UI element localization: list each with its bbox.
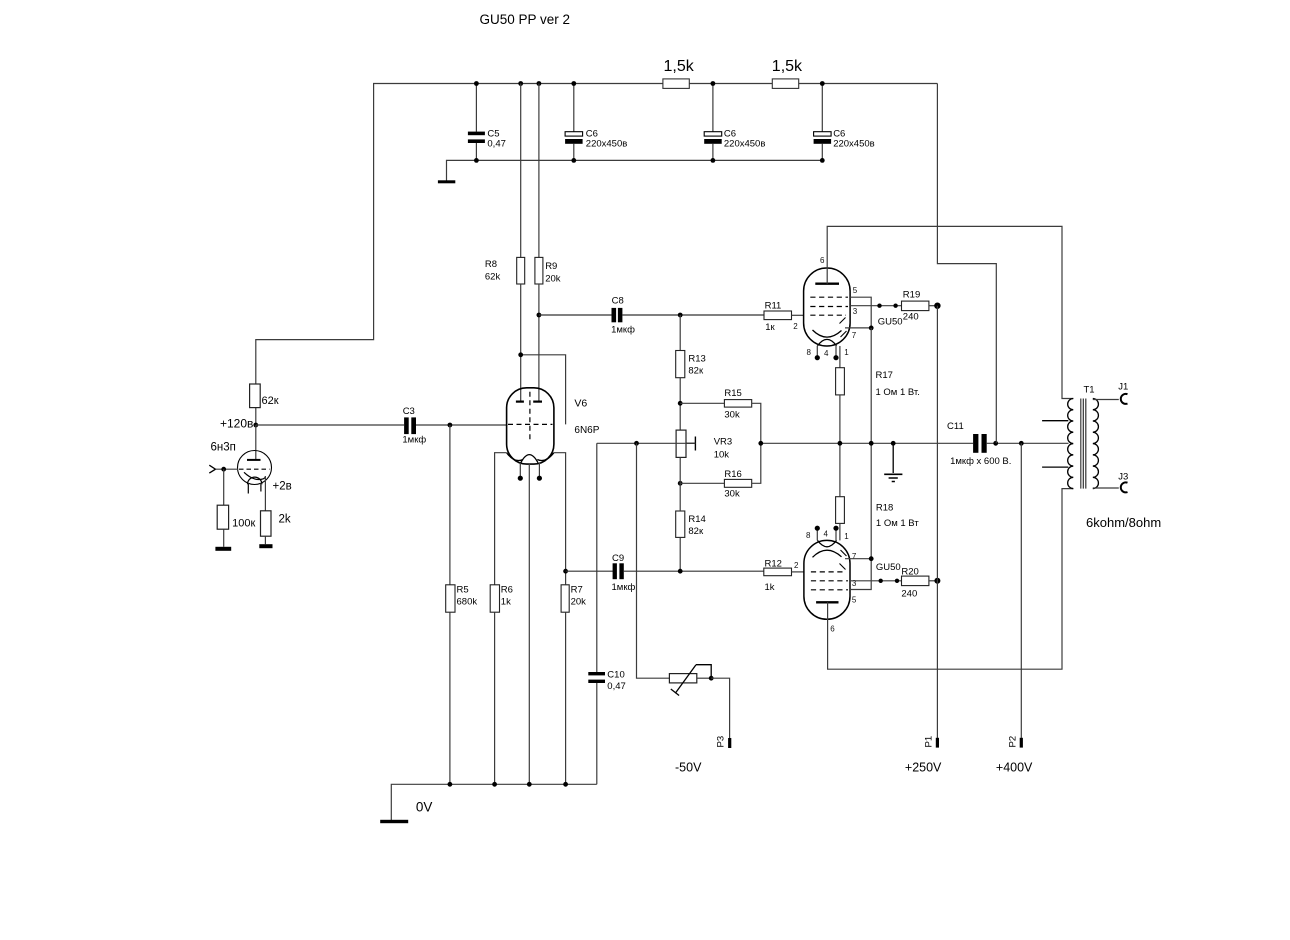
svg-text:R20: R20 <box>901 567 918 578</box>
svg-text:30k: 30k <box>724 410 740 421</box>
svg-text:+250V: +250V <box>905 761 942 775</box>
terminal P1 <box>936 738 939 748</box>
svg-text:-50V: -50V <box>675 761 702 775</box>
capacitor C9 coupling bottom <box>563 569 568 574</box>
capacitor C6 (third) <box>821 84 823 132</box>
wire C9 to R12 <box>624 570 764 572</box>
svg-text:R17: R17 <box>876 370 893 381</box>
ground symbol center <box>892 443 894 473</box>
svg-text:20k: 20k <box>545 274 561 285</box>
svg-text:C10: C10 <box>607 670 624 681</box>
svg-text:62k: 62k <box>485 272 501 283</box>
node R13/R15/VR3 <box>678 401 683 406</box>
node input grid <box>221 467 226 472</box>
wire +250V feed <box>936 306 938 738</box>
wire bias node down to thermistor <box>637 443 670 678</box>
wire cathode bracket right to R7 <box>554 453 566 572</box>
svg-text:8: 8 <box>807 348 812 357</box>
svg-text:GU50 PP ver 2: GU50 PP ver 2 <box>480 12 571 27</box>
resistor R6 1k <box>490 585 499 612</box>
svg-text:6kohm/8ohm: 6kohm/8ohm <box>1086 515 1161 530</box>
node C3/R5 <box>448 423 453 428</box>
svg-text:220x450в: 220x450в <box>833 139 875 150</box>
capacitor C11 1мкф 600В <box>973 434 978 453</box>
svg-text:1к: 1к <box>765 322 775 333</box>
capacitor C6 (second) <box>712 84 714 132</box>
resistor R18 1 Ом <box>836 497 845 524</box>
node R14/R16/VR3 <box>678 481 683 486</box>
svg-text:20k: 20k <box>571 597 587 608</box>
wire +120в node to C3 <box>256 424 404 426</box>
wire input to grid <box>216 468 239 470</box>
svg-text:R7: R7 <box>571 585 583 596</box>
transformer T1 primary winding <box>1068 399 1074 489</box>
wire C3 to V6 grid <box>416 424 508 426</box>
svg-text:VR3: VR3 <box>714 437 732 448</box>
svg-text:1: 1 <box>844 532 849 541</box>
svg-text:C8: C8 <box>612 296 624 307</box>
node dots on ground bus <box>474 158 825 163</box>
wire suppressor line down to ground line <box>870 328 872 559</box>
resistor R12 1k grid stopper bottom <box>764 568 792 576</box>
transformer tap stub upper <box>1042 420 1068 422</box>
svg-text:240: 240 <box>903 312 919 323</box>
wire secondary to J3 <box>1093 487 1119 489</box>
resistor R5 680k <box>449 425 451 585</box>
svg-text:T1: T1 <box>1084 385 1095 396</box>
resistor R15 30k <box>680 402 724 404</box>
svg-text:0V: 0V <box>416 800 433 815</box>
resistor R20 240 screen stopper <box>902 576 929 586</box>
svg-text:3: 3 <box>853 307 858 316</box>
resistor R19 240 screen stopper <box>902 301 929 311</box>
svg-text:5: 5 <box>852 596 857 605</box>
svg-text:J3: J3 <box>1118 472 1128 483</box>
svg-text:7: 7 <box>852 331 857 340</box>
tube V6 6N6P driver <box>507 388 554 464</box>
resistor R8 62k plate load V6a <box>520 84 522 258</box>
svg-text:1 Ом 1 Вт.: 1 Ом 1 Вт. <box>876 387 920 398</box>
wire pin3 to R19 <box>850 305 901 307</box>
tube 6н3п input triode <box>238 451 272 494</box>
terminal P3 <box>728 738 731 748</box>
terminal P2 <box>1020 738 1023 748</box>
wire secondary to J1 <box>1093 399 1119 401</box>
wire plate V6b to C8 <box>539 314 612 316</box>
node C9/R14 <box>678 569 683 574</box>
capacitor C5 <box>475 84 477 132</box>
svg-text:1k: 1k <box>501 597 511 608</box>
svg-text:R5: R5 <box>457 585 469 596</box>
wire bottom anode to transformer <box>828 489 1074 670</box>
wire screen bracket pins 7-5 bottom tube <box>845 559 871 590</box>
wire ground bus top <box>447 160 823 181</box>
svg-text:1: 1 <box>844 348 849 357</box>
svg-text:C9: C9 <box>612 553 624 564</box>
capacitor C10 bias filter <box>596 443 598 672</box>
wire C8 to R11 <box>622 314 764 316</box>
wire R18 to pin1 bottom tube <box>839 523 841 540</box>
svg-text:R13: R13 <box>688 354 705 365</box>
svg-text:7: 7 <box>852 552 857 561</box>
svg-text:R12: R12 <box>765 559 782 570</box>
svg-text:C11: C11 <box>947 421 964 432</box>
svg-text:2: 2 <box>793 322 798 331</box>
svg-text:C3: C3 <box>403 406 415 417</box>
svg-text:R11: R11 <box>765 301 782 312</box>
svg-text:P3: P3 <box>716 736 727 748</box>
svg-text:6N6P: 6N6P <box>574 425 599 436</box>
resistor R16 30k <box>680 482 724 484</box>
svg-text:2: 2 <box>794 561 799 570</box>
wire cathode bracket left to R6 <box>495 453 507 585</box>
svg-text:R16: R16 <box>724 469 741 480</box>
capacitor C6 (first) <box>573 84 575 132</box>
resistor R14 82к <box>676 511 685 537</box>
svg-text:220x450в: 220x450в <box>586 139 628 150</box>
resistor R17 1 Ом <box>836 368 845 395</box>
svg-text:1мкф x 600 В.: 1мкф x 600 В. <box>950 456 1011 467</box>
input terminal chevron <box>209 465 215 473</box>
jack J3 <box>1121 482 1128 492</box>
wire screen rail from B+ to C11 node <box>937 84 996 444</box>
heater pins GU50 top <box>816 346 818 357</box>
thermistor bias network <box>669 674 696 683</box>
capacitor C3 coupling <box>404 417 409 434</box>
svg-text:5: 5 <box>853 286 858 295</box>
capacitor C8 coupling top <box>612 308 617 322</box>
svg-text:220x450в: 220x450в <box>724 139 766 150</box>
wire cathode of 6н3п to 2k <box>264 476 266 511</box>
svg-text:1мкф: 1мкф <box>611 325 635 336</box>
wire top B+ rail <box>256 84 938 385</box>
svg-text:R14: R14 <box>688 514 705 525</box>
resistor 62к plate load of input stage <box>255 408 257 425</box>
node +120в <box>253 423 258 428</box>
svg-text:R6: R6 <box>501 585 513 596</box>
svg-text:30k: 30k <box>724 489 740 500</box>
svg-text:62к: 62к <box>262 395 279 407</box>
jack J1 <box>1121 394 1128 404</box>
wire C11 to transformer center tap <box>987 442 1069 444</box>
svg-text:4: 4 <box>824 530 829 539</box>
svg-text:240: 240 <box>901 589 917 600</box>
heater pins of V6 <box>519 463 521 477</box>
wire plate V6a to grid V6b bracket <box>521 355 566 425</box>
svg-text:R8: R8 <box>485 259 497 270</box>
svg-text:82к: 82к <box>688 366 704 377</box>
svg-text:6: 6 <box>820 256 825 265</box>
svg-text:0,47: 0,47 <box>607 681 626 692</box>
svg-text:2k: 2k <box>279 514 291 526</box>
resistor R9 20k plate load V6b <box>538 84 540 258</box>
svg-text:1мкф: 1мкф <box>612 582 636 593</box>
svg-text:6н3п: 6н3п <box>211 442 236 454</box>
svg-text:1k: 1k <box>765 582 775 593</box>
wire V6 center cathode to 0V bus <box>528 464 530 785</box>
svg-text:J1: J1 <box>1118 382 1128 393</box>
svg-text:P2: P2 <box>1007 736 1018 748</box>
svg-text:1 Ом 1 Вт: 1 Ом 1 Вт <box>876 518 919 529</box>
svg-text:P1: P1 <box>924 736 935 748</box>
heater pins GU50 bottom <box>816 530 818 541</box>
resistor R11 1к grid stopper top <box>764 311 792 320</box>
ground line center <box>761 442 973 444</box>
svg-text:+400V: +400V <box>996 761 1033 775</box>
svg-text:+120в: +120в <box>220 417 253 431</box>
svg-text:680k: 680k <box>457 597 478 608</box>
svg-text:1,5k: 1,5k <box>772 58 803 75</box>
svg-text:GU50: GU50 <box>878 317 903 328</box>
svg-text:4: 4 <box>824 349 829 358</box>
svg-text:R9: R9 <box>545 261 557 272</box>
wire thermistor to P3 <box>711 678 729 738</box>
resistor R7 20k <box>561 585 569 612</box>
svg-text:10k: 10k <box>714 450 730 461</box>
wire +400V feed <box>1020 443 1022 738</box>
svg-text:100к: 100к <box>232 518 255 530</box>
resistor R13 82к <box>679 315 681 351</box>
svg-text:R15: R15 <box>724 388 741 399</box>
tube GU50 top <box>804 268 851 346</box>
resistor 100к grid leak <box>223 469 225 505</box>
transformer tap stub lower <box>1042 466 1068 468</box>
wire screen bracket pins 5-7 top tube <box>845 297 871 328</box>
node plate V6b / C8 <box>537 313 542 318</box>
resistor 1,5k (first) <box>663 79 689 89</box>
wire anode lead of 6н3п <box>255 425 257 460</box>
svg-text:+2в: +2в <box>273 481 292 493</box>
node C8/R13 <box>678 313 683 318</box>
svg-text:0,47: 0,47 <box>487 139 506 150</box>
ground 0V <box>380 820 408 823</box>
svg-text:R18: R18 <box>876 503 893 514</box>
svg-text:V6: V6 <box>574 398 587 410</box>
tube GU50 bottom <box>804 540 850 619</box>
ground under 2k <box>259 544 272 548</box>
wire top anode to transformer <box>827 226 1073 398</box>
svg-text:R19: R19 <box>903 290 920 301</box>
potentiometer VR3 10k <box>676 430 686 457</box>
resistor 1,5k (second) <box>772 79 798 89</box>
0V bus <box>391 784 597 821</box>
wire pin3 to R20 <box>850 580 902 582</box>
svg-text:GU50: GU50 <box>876 562 901 573</box>
svg-text:1мкф: 1мкф <box>402 435 426 446</box>
ground top-left <box>438 180 455 183</box>
ground under 100к <box>215 547 231 551</box>
svg-text:82к: 82к <box>688 526 704 537</box>
resistor 2k cathode <box>261 511 272 536</box>
transformer core <box>1080 399 1082 489</box>
svg-text:1,5k: 1,5k <box>664 58 695 75</box>
svg-text:8: 8 <box>806 531 811 540</box>
wiper feed line of VR3 <box>597 442 696 444</box>
transformer T1 secondary winding <box>1093 399 1099 489</box>
wire pin1 cathode to R17 <box>839 346 841 368</box>
node dots on B+ rail <box>474 81 825 86</box>
svg-text:6: 6 <box>830 625 835 634</box>
